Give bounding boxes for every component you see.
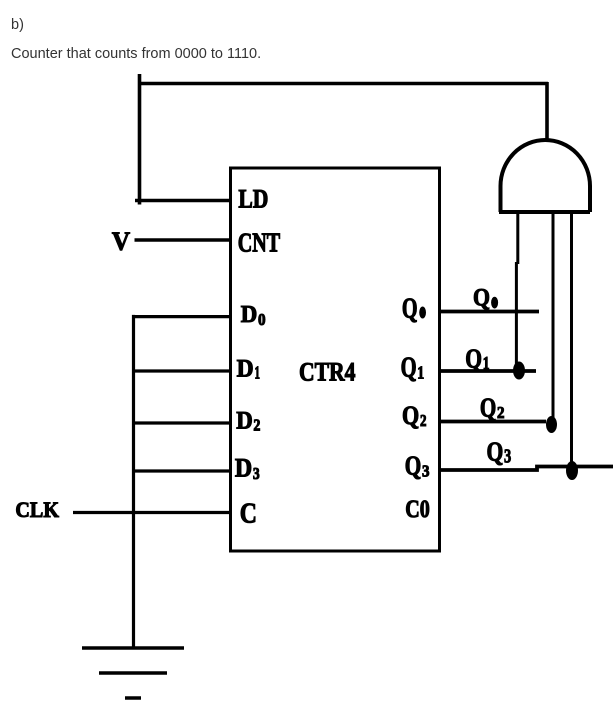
wire Q2 output [440,420,546,424]
net label Q3 [487,435,512,467]
wire D2 [132,421,231,424]
svg-text:3: 3 [422,462,430,481]
wire feedback left vertical [138,74,142,205]
svg-text:Q: Q [402,294,418,325]
wire D1 [132,369,231,372]
svg-text:LD: LD [238,185,268,214]
pin label D3 [235,454,260,483]
wire Q1 output [440,369,536,373]
wire CLK to C [73,511,231,514]
net label Q2 [480,392,505,423]
wire LD input [135,199,231,203]
junction dot Q2 [546,416,557,433]
wire Q0 output [440,310,539,314]
wire D0 [132,315,231,318]
pin label D0 [241,302,266,329]
wire AND input 3 [570,212,573,470]
wire AND input 2 [552,212,555,424]
svg-text:1: 1 [483,353,490,373]
wire D3 [132,469,231,472]
svg-text:Q: Q [405,451,422,481]
wire Q3 output [440,467,613,471]
pin label Q1 inside [401,353,425,384]
svg-text:3: 3 [253,464,260,483]
svg-text:D: D [237,354,254,383]
svg-text:D: D [236,408,253,435]
wire AND input 1 [516,212,517,371]
junction dot Q1 [513,362,525,380]
caption title [11,46,261,62]
svg-text:1: 1 [417,363,424,383]
wire feedback right vertical to AND output [545,82,549,141]
svg-text:V: V [112,227,130,256]
svg-text:C0: C0 [405,496,430,523]
svg-text:CTR4: CTR4 [299,358,356,387]
svg-text:2: 2 [420,411,427,430]
junction dot Q3 [566,461,578,480]
svg-text:2: 2 [253,416,260,435]
and-gate U2 [499,140,590,212]
pin label Q0 inside [402,294,426,325]
svg-text:C: C [240,498,257,530]
wire V to CNT [135,238,232,242]
svg-text:1: 1 [255,363,261,383]
pin label Q3 inside [405,451,430,481]
wire ground bus vertical [132,315,135,648]
svg-text:2: 2 [497,403,505,422]
svg-text:D: D [235,454,252,483]
pin label D2 [236,408,260,435]
svg-text:Q: Q [487,435,504,466]
counter U1 CTR4 box [231,168,440,551]
pin label Q2 inside [402,401,427,430]
wire feedback top horizontal [138,82,548,86]
caption b) [11,17,24,33]
svg-text:D: D [241,302,258,328]
svg-text:0: 0 [258,310,266,329]
svg-text:Q: Q [465,343,482,374]
svg-text:Q: Q [401,353,417,384]
svg-text:CLK: CLK [15,497,59,522]
svg-text:CNT: CNT [238,228,281,258]
svg-text:Q: Q [402,401,419,430]
svg-text:Q: Q [480,392,496,423]
pin label D1 [237,354,260,383]
svg-text:3: 3 [504,446,511,468]
net label Q1 [465,343,489,374]
net label Q0 [473,285,498,312]
ground [82,648,184,698]
svg-text:Q: Q [473,285,490,312]
